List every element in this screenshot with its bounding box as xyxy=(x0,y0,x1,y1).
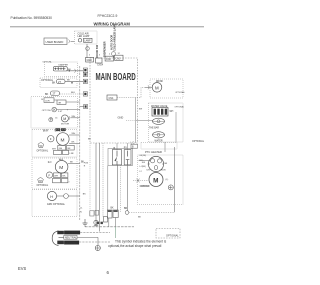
svg-text:BK/R: BK/R xyxy=(43,130,49,132)
svg-text:FPHC23C2-9: FPHC23C2-9 xyxy=(98,14,118,18)
svg-text:WIRING DIAGRAM: WIRING DIAGRAM xyxy=(94,21,131,26)
svg-text:OPTIONAL: OPTIONAL xyxy=(53,203,66,206)
svg-text:L#(BK): L#(BK) xyxy=(140,166,147,168)
svg-text:CN3: CN3 xyxy=(116,57,121,60)
ice maker optional box xyxy=(149,103,185,143)
connector into compressor xyxy=(133,179,149,183)
connector circle to compressor wire xyxy=(125,211,174,219)
note leader line xyxy=(115,227,117,238)
model number text xyxy=(98,14,118,18)
wires from board bottom xyxy=(90,143,103,232)
svg-text:3R: 3R xyxy=(58,103,61,105)
wire relay to switch xyxy=(107,166,109,211)
svg-text:RUN: RUN xyxy=(161,169,166,171)
legend optional sample box xyxy=(156,229,180,239)
connector CN3 xyxy=(115,55,123,60)
vertical wire right of compressor xyxy=(174,147,176,212)
svg-text:CN14: CN14 xyxy=(97,64,104,66)
bus stub to board connector xyxy=(80,106,84,108)
svg-text:EVS: EVS xyxy=(18,266,26,271)
L label and ground circle right of compressor xyxy=(166,179,174,190)
svg-text:M: M xyxy=(153,177,158,184)
svg-text:CN2: CN2 xyxy=(106,58,111,61)
main board dashed outline xyxy=(90,58,138,143)
relay 2 xyxy=(124,150,131,165)
svg-text:SW: SW xyxy=(139,108,142,110)
svg-text:M: M xyxy=(63,117,66,121)
svg-text:OPTIONAL: OPTIONAL xyxy=(175,105,185,108)
ice maker fill cross circle xyxy=(52,107,80,113)
svg-text:(L): (L) xyxy=(166,179,169,181)
door switch 3 xyxy=(113,210,118,218)
svg-text:M: M xyxy=(155,85,159,90)
svg-text:BK(5B): BK(5B) xyxy=(140,155,147,157)
svg-text:WH: WH xyxy=(72,133,76,135)
svg-text:BR: BR xyxy=(124,208,128,210)
svg-text:LDR: LDR xyxy=(45,101,50,103)
svg-text:OPTIONAL: OPTIONAL xyxy=(166,235,179,238)
main board label xyxy=(96,70,136,82)
vertical wire label cold air duct xyxy=(113,23,117,51)
power wires xyxy=(77,232,110,242)
svg-text:WH: WH xyxy=(54,176,58,178)
svg-text:OPTIONAL: OPTIONAL xyxy=(192,140,205,143)
freezer fan optional box xyxy=(32,130,80,158)
fuse label xyxy=(84,163,89,168)
svg-text:WH: WH xyxy=(72,116,76,118)
junction row wire xyxy=(85,218,134,227)
svg-text:H: H xyxy=(50,195,53,199)
svg-text:WH: WH xyxy=(170,111,174,113)
svg-text:LED LAMP: LED LAMP xyxy=(78,35,90,38)
svg-text:BK: BK xyxy=(52,81,56,84)
ice maker assembly optional box xyxy=(31,97,78,129)
footer EVS xyxy=(18,266,26,271)
line filter / led lamp optional box xyxy=(75,31,98,44)
flex fan optional box xyxy=(32,158,85,189)
svg-text:SR: SR xyxy=(164,163,167,165)
svg-text:Publication No. 5995580530: Publication No. 5995580530 xyxy=(11,16,53,20)
left bus wire xyxy=(79,66,81,220)
svg-text:COMPRESSOR: COMPRESSOR xyxy=(140,186,150,188)
connector CN7 left edge xyxy=(84,104,88,108)
svg-text:BLK: BLK xyxy=(71,92,76,94)
svg-text:ILR: ILR xyxy=(146,169,150,171)
svg-text:ILR: ILR xyxy=(142,162,146,164)
svg-text:MOTOR: MOTOR xyxy=(61,123,70,125)
ground symbol circle small xyxy=(94,220,98,225)
svg-text:optional,the actual shape what: optional,the actual shape what prevail xyxy=(108,244,162,248)
relay feed stubs xyxy=(117,143,128,150)
power cord plug xyxy=(52,231,64,246)
wire lamp box down to board xyxy=(86,44,90,58)
svg-text:2T: 2T xyxy=(53,93,56,96)
compressor start relay circle xyxy=(139,156,168,171)
svg-text:NEUTRAL: NEUTRAL xyxy=(65,236,78,240)
svg-text:GN: GN xyxy=(59,148,63,150)
relay side labels xyxy=(140,155,147,173)
GND node inside board xyxy=(118,116,136,121)
connector arc on board right xyxy=(132,74,133,79)
svg-text:F: F xyxy=(48,173,50,177)
svg-text:L3R: L3R xyxy=(70,153,74,155)
svg-text:OPTIONAL: OPTIONAL xyxy=(175,91,185,94)
vertical wire label door sw xyxy=(95,44,99,58)
svg-text:GND: GND xyxy=(118,116,124,120)
header rule xyxy=(10,26,204,28)
compressor motor xyxy=(140,173,163,189)
compressor dashed box xyxy=(138,155,184,205)
stub ice maker to heater xyxy=(164,142,166,152)
svg-text:OPT'CNL: OPT'CNL xyxy=(42,110,52,112)
defrost heater optional box xyxy=(32,190,86,217)
svg-text:CN4: CN4 xyxy=(109,97,114,100)
connector GND top edge xyxy=(86,57,94,62)
title WIRING DIAGRAM xyxy=(94,21,131,26)
door switch 1 xyxy=(104,217,108,223)
switch labels xyxy=(111,208,128,211)
connector CN4 right side xyxy=(107,95,117,100)
svg-text:DISPENSER: DISPENSER xyxy=(103,41,107,57)
connector CN8 left edge xyxy=(83,92,87,96)
ice maker connector boxes row xyxy=(41,98,80,105)
ice fan optional box xyxy=(145,79,185,98)
connector CN5 left edge xyxy=(83,79,87,83)
wires from relays down xyxy=(117,165,127,212)
svg-text:LINE BRN: LINE BRN xyxy=(65,231,77,235)
earth ground bottom xyxy=(95,242,100,251)
svg-text:CONL SW: CONL SW xyxy=(55,130,66,132)
svg-text:OPT'CNL: OPT'CNL xyxy=(43,62,53,64)
auger motor xyxy=(49,115,80,131)
svg-text:GROUND: GROUND xyxy=(65,241,77,245)
junction boxes near power xyxy=(90,210,99,216)
node circle on duct wire xyxy=(112,52,116,58)
line label xyxy=(64,231,80,235)
svg-text:LAMP: LAMP xyxy=(84,40,91,43)
svg-text:ILO: ILO xyxy=(48,162,52,164)
connector CN14 xyxy=(96,58,104,66)
svg-text:OPTIONAL: OPTIONAL xyxy=(37,184,49,187)
svg-text:GRN: GRN xyxy=(47,203,53,206)
legend note text xyxy=(108,239,167,248)
svg-text:FUS: FUS xyxy=(84,163,89,165)
connector CN6b left edge xyxy=(83,72,87,76)
svg-text:THE BAR: THE BAR xyxy=(149,126,159,129)
pin numbers top edge xyxy=(89,53,121,57)
relay 1 xyxy=(112,150,121,165)
ground label xyxy=(64,241,79,245)
svg-text:RY: RY xyxy=(124,147,128,149)
svg-text:M: M xyxy=(61,137,65,143)
ground symbol hatched xyxy=(83,219,88,226)
door switch 2 xyxy=(107,210,112,218)
optional sensor box xyxy=(40,78,83,88)
user interface board box xyxy=(44,38,75,45)
svg-text:2T: 2T xyxy=(58,81,61,84)
svg-text:MAIN BOARD: MAIN BOARD xyxy=(96,70,136,82)
wire board to ice maker sensor xyxy=(136,98,153,144)
svg-text:OPTIONAL: OPTIONAL xyxy=(37,149,49,152)
duct heater optional strip xyxy=(141,140,205,154)
svg-text:BK: BK xyxy=(45,93,49,96)
svg-text:3.0T: 3.0T xyxy=(58,111,63,113)
svg-text:USER BOARD: USER BOARD xyxy=(46,40,64,44)
terminal labels left of heater strip xyxy=(131,142,138,148)
dashed wire CN4 to ice fan xyxy=(117,87,145,97)
svg-text:This symbol indicates the elem: This symbol indicates the element is xyxy=(115,239,167,243)
svg-text:PTC HEATER: PTC HEATER xyxy=(145,150,162,154)
neutral label xyxy=(64,235,78,239)
vertical wire label auto door xyxy=(110,35,113,50)
thermistor row xyxy=(45,91,83,96)
svg-text:DAMPER: DAMPER xyxy=(59,63,69,66)
vertical wire label dispenser xyxy=(103,41,107,57)
optional damper box xyxy=(43,62,84,77)
svg-text:BK: BK xyxy=(111,208,115,210)
connector CN2 xyxy=(105,56,113,61)
publication number text xyxy=(11,16,53,20)
svg-text:AUTO DOOR: AUTO DOOR xyxy=(110,35,113,50)
connector CN6 left edge xyxy=(83,68,87,72)
footer page number xyxy=(107,270,110,275)
svg-text:M: M xyxy=(59,165,63,171)
svg-text:GND: GND xyxy=(87,59,93,62)
relay box assembly xyxy=(108,147,133,165)
svg-text:F: F xyxy=(50,137,52,141)
